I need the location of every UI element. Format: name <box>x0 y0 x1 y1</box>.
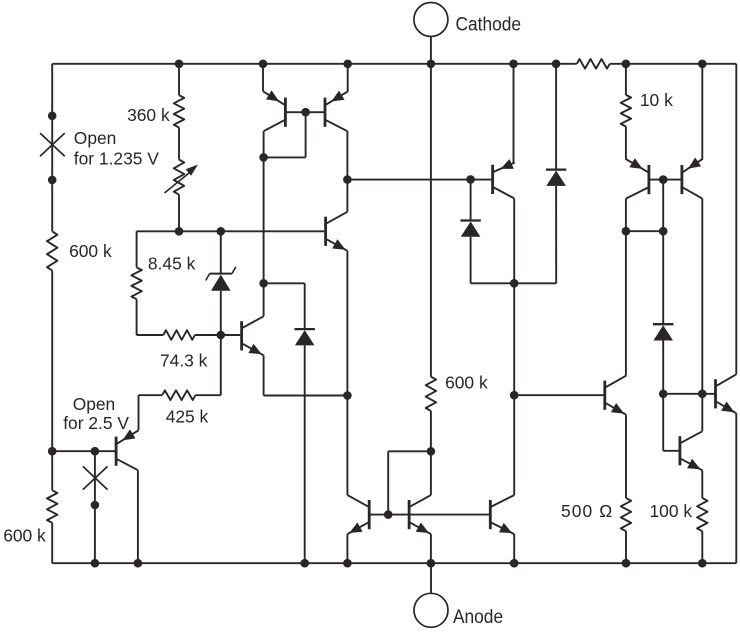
wire Q11 collector down <box>701 199 703 394</box>
node dot rail cathode <box>427 60 436 69</box>
node dot Q3 base node <box>217 331 226 340</box>
wire D2 bottom lead <box>470 237 472 283</box>
label 500 ohm <box>561 501 613 521</box>
wire D4 node down <box>662 394 664 451</box>
wire D2 top lead <box>470 179 472 220</box>
svg-text:600 k: 600 k <box>445 373 488 393</box>
wire x514 emitter drop <box>513 64 515 163</box>
node dot rail x347 <box>343 60 352 69</box>
node dot pair1 tie <box>259 153 268 162</box>
svg-text:Anode: Anode <box>453 605 503 627</box>
transistor Q7 npn <box>490 495 514 534</box>
resistor 425k <box>162 390 195 400</box>
wire pnp1-right emitter drop <box>347 64 349 92</box>
wire Q1b collector down <box>346 131 348 179</box>
wire left rail <box>51 64 53 563</box>
node dot pair2 tie left <box>622 227 631 236</box>
wire rail to 360k <box>178 64 180 95</box>
node dot rail x626 <box>622 60 631 69</box>
wire cathode lead <box>430 37 432 64</box>
svg-text:Open: Open <box>73 394 116 414</box>
node dot rail x263 <box>259 60 268 69</box>
node dot bottom rail x305 <box>300 559 309 568</box>
wire diode D1 top lead <box>304 283 306 329</box>
wire trio base wire <box>369 514 490 516</box>
node dot x347 y395 <box>343 391 352 400</box>
wire D4 top lead <box>662 231 664 324</box>
terminal Cathode circle <box>414 3 448 37</box>
wire 10k to Q10 emitter <box>625 127 627 159</box>
wire pair1 base-base <box>285 111 325 113</box>
wire Q12 collector up <box>701 394 703 432</box>
node dot bottom rail x138 <box>134 559 143 568</box>
wire Q4 emitter down x347 <box>346 251 348 495</box>
node dot below X1 <box>48 176 57 185</box>
node dot bottom rail x702 <box>698 559 707 568</box>
wire x263 to diode D1 <box>264 282 305 284</box>
svg-text:500 Ω: 500 Ω <box>561 501 613 521</box>
wire 425k right lead <box>196 394 221 396</box>
wire Q5 emitter down <box>346 534 348 563</box>
wire zener top lead <box>220 231 222 273</box>
diode D4 <box>653 324 673 340</box>
wire cathode column upper <box>430 64 432 377</box>
node dot Q8 base tie <box>466 175 475 184</box>
diode D1 <box>295 329 315 345</box>
node dot bottom rail x95 <box>91 559 100 568</box>
node dot bottom rail x347 <box>343 559 352 568</box>
wire pair2 base drop <box>662 180 664 232</box>
wire Q4 collector up <box>346 180 348 212</box>
label 600 k middle <box>445 373 488 393</box>
transistor Q9 npn <box>605 376 626 415</box>
svg-text:74.3 k: 74.3 k <box>160 350 208 370</box>
transistor Q11 pnp <box>682 158 703 199</box>
label 8.45 k <box>148 254 196 274</box>
label Anode <box>453 605 503 627</box>
node dot zener top <box>217 227 226 236</box>
resistor 360k <box>174 95 184 127</box>
node dot x431 y451 <box>427 447 436 456</box>
node dot trio base <box>384 510 393 519</box>
node dot rail x556 <box>552 60 561 69</box>
svg-text:360 k: 360 k <box>127 105 170 125</box>
svg-text:600 k: 600 k <box>69 241 112 261</box>
wire pair1 tie <box>264 156 306 158</box>
wire mirror tie vertical <box>387 451 389 514</box>
wire node row y231 <box>137 230 325 232</box>
svg-text:10 k: 10 k <box>640 90 673 110</box>
transistor Q1b pnp <box>325 91 348 132</box>
node dot bottom rail anode <box>427 559 436 568</box>
node dot rail x702 <box>698 60 707 69</box>
node dot bottom rail x626 <box>622 559 631 568</box>
label for 2.5 V <box>63 413 129 433</box>
wire D3 top lead <box>555 64 557 170</box>
node dot x347 y179 <box>343 175 352 184</box>
wire y394 horizontal <box>663 393 715 395</box>
node dot below X2 <box>91 501 100 510</box>
svg-text:for 2.5 V: for 2.5 V <box>63 413 129 433</box>
resistor 500 ohm <box>621 498 631 531</box>
label Open (1.235) <box>74 128 117 148</box>
wire Q12 emitter down <box>701 470 703 498</box>
node dot x514 y283 <box>510 279 519 288</box>
label 600 k upper-left <box>69 241 112 261</box>
node dot pair2 base <box>659 175 668 184</box>
resistor series on top rail <box>577 59 610 69</box>
label 10 k <box>640 90 673 110</box>
wire Q7 emitter down <box>513 534 515 563</box>
node dot left rail y451 <box>48 447 57 456</box>
wire 425k left lead <box>139 394 163 396</box>
wire Q3 emitter to x347 <box>264 395 348 397</box>
label for 1.235 V <box>74 149 159 169</box>
svg-text:600 k: 600 k <box>3 526 46 546</box>
label 425 k <box>166 407 209 427</box>
wire X2 to bottom rail <box>94 451 96 563</box>
wire pair1 base drop <box>305 112 307 157</box>
node dot x95 y451 <box>91 447 100 456</box>
zener diode DZ <box>206 267 236 291</box>
transistor Q6 npn (diode-connected) <box>409 495 431 534</box>
wire cathode column lower <box>430 411 432 495</box>
node dot above X1 <box>48 112 57 121</box>
open-link X2 <box>83 466 108 489</box>
svg-text:Open: Open <box>74 128 117 148</box>
svg-text:100 k: 100 k <box>650 501 693 521</box>
wire Q6 emitter down <box>430 534 432 563</box>
wire pair2 base-base <box>649 179 682 181</box>
node dot pair2 tie right <box>659 227 668 236</box>
wire zener bottom lead <box>220 291 222 335</box>
wire D4 bottom lead <box>662 341 664 394</box>
wire rail to 10k <box>625 64 627 95</box>
transistor Q2 pnp <box>116 429 138 470</box>
wire pnp1-left emitter drop <box>262 64 264 92</box>
diode D2 <box>460 221 480 237</box>
svg-text:425 k: 425 k <box>166 407 209 427</box>
node dot trimmer bottom <box>175 227 184 236</box>
wire 74.3k right lead <box>195 334 240 336</box>
wire trimmer to node row <box>178 195 180 232</box>
wire 500ohm to rail <box>625 531 627 563</box>
node dot pair1 base <box>301 108 310 117</box>
resistor 600k middle <box>426 377 436 411</box>
node dot x702 y394 <box>698 390 707 399</box>
wire Q3 emitter down <box>263 355 265 395</box>
label Open (2.5) <box>73 394 116 414</box>
resistor 8.45k <box>131 267 141 299</box>
transistor Q10 pnp (diode-connected) <box>625 158 649 198</box>
node dot rail x179 <box>175 60 184 69</box>
label 600 k lower-left <box>3 526 46 546</box>
wire 8.45k top drop <box>136 231 138 267</box>
label 74.3 k <box>160 350 208 370</box>
wire 360k to trimmer <box>178 128 180 160</box>
transistor Q1a pnp (diode-connected) <box>263 90 285 131</box>
transistor Q13 npn <box>716 374 737 413</box>
node dot x514 y395 <box>510 391 519 400</box>
wire y451 horizontal <box>52 450 115 452</box>
svg-text:Cathode: Cathode <box>456 13 521 35</box>
node dot x663 y394 <box>659 390 668 399</box>
wire pnp2-right emitter drop <box>701 64 703 159</box>
resistor 600k upper-left <box>47 231 57 270</box>
node dot rail x514 <box>509 60 518 69</box>
wire anode lead <box>430 563 432 593</box>
transistor Q4 npn <box>326 212 348 251</box>
wire y179 horizontal to Q8 base <box>347 179 492 181</box>
svg-text:8.45 k: 8.45 k <box>148 254 196 274</box>
wire Q10 collector down <box>625 199 627 376</box>
wire Q3 collector up <box>263 283 265 316</box>
wire diode D1 to bottom rail <box>304 345 306 563</box>
transistor Q8 pnp <box>493 159 515 198</box>
wire right rail upper <box>735 64 737 375</box>
wire Q8 collector down <box>513 198 515 495</box>
wire 8.45k to 74.3k <box>136 299 138 335</box>
svg-text:for 1.235 V: for 1.235 V <box>74 149 159 169</box>
wire mirror tie horizontal <box>388 450 431 452</box>
wire y283 horizontal <box>471 282 557 284</box>
node dot x263 y283 <box>259 279 268 288</box>
wire Q9 emitter down <box>625 415 627 498</box>
resistor trimmer <box>174 160 184 195</box>
wire bottom rail <box>52 562 736 564</box>
wire Q2 collector down <box>137 470 139 563</box>
diode D3 <box>546 170 566 186</box>
wire base node down <box>220 335 222 395</box>
wire pair2 tie <box>626 230 663 232</box>
label Cathode <box>456 13 521 35</box>
wire D3 bottom lead <box>555 186 557 283</box>
label 360 k <box>127 105 170 125</box>
terminal Anode circle <box>414 593 448 627</box>
open-link X1 <box>40 133 65 156</box>
node dot bottom rail x514 <box>510 559 519 568</box>
transistor Q5 npn (mirrored) <box>347 495 369 534</box>
wire top rail (right section) <box>610 63 737 65</box>
wire Q1a collector down <box>263 131 265 283</box>
transistor Q3 npn <box>242 316 264 355</box>
wire right rail lower <box>735 413 737 563</box>
resistor 100k <box>697 498 707 531</box>
label 100 k <box>650 501 693 521</box>
wire Q12 base lead <box>663 450 680 452</box>
resistor 74.3k <box>163 330 195 340</box>
wire top rail (left section) <box>52 63 577 65</box>
transistor Q12 npn <box>680 431 702 470</box>
resistor 600k lower-left <box>47 490 57 523</box>
wire 74.3k left lead <box>137 334 164 336</box>
wire y395 to Q9 base <box>514 394 605 396</box>
wire 100k to rail <box>701 531 703 563</box>
wire Q2 emitter drop <box>138 395 140 430</box>
trimmer arrow <box>165 165 199 194</box>
resistor 10k <box>621 95 631 127</box>
